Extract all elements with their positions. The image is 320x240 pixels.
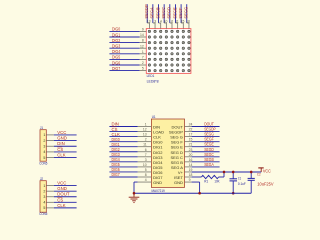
wire net SEGG from U1 bbox=[192, 136, 220, 138]
svg-text:DIG3: DIG3 bbox=[112, 44, 121, 49]
wire net DIG2 to U1 bbox=[109, 151, 137, 153]
svg-text:LED8*8: LED8*8 bbox=[147, 78, 159, 83]
wire net SEGC to LED1 column bbox=[163, 4, 165, 23]
svg-text:CON5: CON5 bbox=[39, 211, 47, 216]
pin 2 J2 bbox=[46, 190, 54, 192]
pin 9 LED1 left bbox=[140, 30, 147, 32]
svg-text:17: 17 bbox=[189, 133, 193, 137]
svg-text:SEGG: SEGG bbox=[184, 7, 189, 19]
junction gnd/ground symbol bbox=[133, 192, 136, 195]
wire net DIG5 to U1 bbox=[109, 166, 137, 168]
pin 12 LED1 left bbox=[140, 47, 147, 49]
wire gnd rail bbox=[134, 192, 251, 194]
svg-text:7: 7 bbox=[142, 56, 144, 60]
pin 3 U1 DIG4 bbox=[138, 161, 152, 163]
wire net DIG4 to U1 bbox=[109, 161, 137, 163]
pin 1 LED1 left bbox=[140, 53, 147, 55]
svg-text:DOUT: DOUT bbox=[57, 192, 70, 197]
svg-text:5: 5 bbox=[145, 168, 147, 172]
pin 5 U1 DIG6 bbox=[138, 171, 152, 173]
svg-text:CON5: CON5 bbox=[39, 160, 47, 165]
junction C2/V+ bbox=[250, 171, 253, 174]
pin 1 J1 bbox=[46, 134, 54, 136]
junction C1/V+ bbox=[232, 171, 235, 174]
svg-text:U1: U1 bbox=[152, 114, 156, 119]
pin 14 U1 SEG A bbox=[185, 166, 192, 168]
svg-text:4: 4 bbox=[145, 178, 147, 182]
pin 1 U1 DIN bbox=[138, 126, 152, 128]
svg-text:1: 1 bbox=[43, 184, 45, 188]
wire net SEGD from U1 bbox=[192, 151, 220, 153]
overline CS bbox=[112, 126, 117, 128]
wire V+ rail to VCC bbox=[192, 171, 262, 173]
wire net DIG3 to U1 bbox=[109, 156, 137, 158]
pin 13 LED1 top bbox=[147, 22, 149, 24]
wire net DIG3 to LED1 row bbox=[109, 47, 139, 49]
wire net DIG1 to U1 bbox=[109, 146, 137, 148]
svg-text:10uF25V: 10uF25V bbox=[257, 181, 273, 186]
pin 18 U1 ISET bbox=[185, 176, 192, 178]
svg-text:5: 5 bbox=[43, 156, 45, 160]
svg-text:GND: GND bbox=[57, 186, 67, 191]
pin 16 LED1 top bbox=[187, 22, 189, 24]
svg-text:SEGB: SEGB bbox=[155, 7, 160, 19]
svg-text:SEGE: SEGE bbox=[172, 7, 177, 19]
svg-text:CLK: CLK bbox=[57, 203, 65, 208]
pin 16 U1 SEG B bbox=[185, 161, 192, 163]
svg-text:SEGA: SEGA bbox=[150, 7, 155, 19]
pin 20 U1 SEG C bbox=[185, 156, 192, 158]
pin 10 LED1 top bbox=[164, 22, 166, 24]
pin 8 U1 DIG7 bbox=[138, 176, 152, 178]
svg-text:12: 12 bbox=[140, 44, 144, 48]
pin 5 J1 bbox=[46, 157, 54, 159]
pin 4 J1 bbox=[46, 151, 54, 153]
wire net DIG1 to LED1 row bbox=[109, 36, 139, 38]
capacitor C2 bbox=[248, 177, 255, 179]
wire net DIN from J1 pin 3 bbox=[54, 145, 77, 147]
svg-text:DIG4: DIG4 bbox=[112, 49, 121, 54]
svg-text:21: 21 bbox=[189, 143, 193, 147]
svg-text:3: 3 bbox=[43, 145, 45, 149]
svg-text:1: 1 bbox=[142, 50, 144, 54]
svg-text:SEGA: SEGA bbox=[204, 162, 214, 167]
wire U1 ISET to R1 bbox=[192, 176, 202, 178]
svg-text:DIG2: DIG2 bbox=[112, 38, 121, 43]
svg-text:10K: 10K bbox=[214, 178, 219, 183]
svg-text:4: 4 bbox=[160, 20, 162, 24]
svg-text:J1: J1 bbox=[40, 126, 43, 130]
svg-text:2: 2 bbox=[43, 139, 45, 143]
svg-text:1: 1 bbox=[43, 133, 45, 137]
overline CS bbox=[57, 146, 62, 148]
pin 3 J1 bbox=[46, 145, 54, 147]
svg-text:SEGDP: SEGDP bbox=[144, 4, 149, 19]
wire V+ to C2 bbox=[250, 172, 252, 178]
pin 4 J2 bbox=[46, 201, 54, 203]
svg-text:GND: GND bbox=[57, 136, 67, 141]
wire net DOUT from U1 bbox=[192, 126, 220, 128]
svg-text:11: 11 bbox=[143, 143, 147, 147]
svg-text:VCC: VCC bbox=[57, 130, 66, 135]
wire net DIG6 to LED1 row bbox=[109, 64, 139, 66]
svg-text:SEGF: SEGF bbox=[178, 7, 183, 19]
svg-text:24: 24 bbox=[189, 123, 193, 127]
wire net CLK to U1 bbox=[109, 136, 137, 138]
wire net SEGDP to LED1 column bbox=[146, 4, 148, 23]
pin 22 U1 SEGDP bbox=[185, 131, 192, 133]
capacitor C1 bbox=[230, 178, 238, 180]
wire net DIG5 to LED1 row bbox=[109, 58, 139, 60]
wire net SEGB to LED1 column bbox=[158, 4, 160, 23]
svg-text:SEGC: SEGC bbox=[161, 7, 166, 19]
wire net CS to U1 bbox=[109, 131, 137, 133]
pin 23 U1 SEG D bbox=[185, 151, 192, 153]
svg-text:VCC: VCC bbox=[263, 168, 271, 173]
pin 17 U1 SEG G bbox=[185, 136, 192, 138]
wire net DIG7 to U1 bbox=[109, 176, 137, 178]
pin 9 U1 GND bbox=[185, 181, 192, 183]
pin 12 U1 LOAD bbox=[138, 131, 152, 133]
wire net DIG7 to LED1 row bbox=[109, 70, 139, 72]
svg-text:22: 22 bbox=[189, 128, 193, 132]
pin 8 LED1 left bbox=[140, 42, 147, 44]
wire net SEGE to LED1 column bbox=[174, 4, 176, 23]
svg-text:3: 3 bbox=[154, 20, 156, 24]
resistor R1 bbox=[201, 175, 218, 178]
svg-text:23: 23 bbox=[189, 148, 193, 152]
wire net SEGB from U1 bbox=[192, 161, 220, 163]
svg-text:15: 15 bbox=[189, 138, 193, 142]
pin 24 U1 DOUT bbox=[185, 126, 192, 128]
svg-text:R1: R1 bbox=[204, 178, 208, 183]
svg-text:10: 10 bbox=[143, 163, 147, 167]
wire net CS from J2 pin 4 bbox=[54, 201, 77, 203]
svg-text:12: 12 bbox=[143, 128, 147, 132]
wire net GND from J2 pin 2 bbox=[54, 190, 77, 192]
svg-text:DIG5: DIG5 bbox=[112, 55, 121, 60]
pin 5 LED1 left bbox=[140, 70, 147, 72]
pin 13 U1 CLK bbox=[138, 136, 152, 138]
svg-text:DIG1: DIG1 bbox=[112, 32, 121, 37]
svg-text:19: 19 bbox=[189, 168, 193, 172]
svg-text:DIG7: DIG7 bbox=[112, 172, 121, 177]
svg-text:VCC: VCC bbox=[57, 181, 66, 186]
svg-text:20: 20 bbox=[189, 153, 193, 157]
pin 15 LED1 top bbox=[181, 22, 183, 24]
wire net SEGD to LED1 column bbox=[169, 4, 171, 23]
wire net DIN to U1 bbox=[109, 126, 137, 128]
svg-text:9: 9 bbox=[142, 28, 144, 32]
pin 7 U1 DIG3 bbox=[138, 156, 152, 158]
svg-text:10: 10 bbox=[164, 20, 168, 24]
wire net DIG6 to U1 bbox=[109, 171, 137, 173]
wire V+ to C1 bbox=[232, 172, 234, 179]
svg-text:SEGD: SEGD bbox=[167, 7, 172, 19]
pin 14 LED1 left bbox=[140, 36, 147, 38]
svg-text:1: 1 bbox=[145, 123, 147, 127]
pin 21 U1 SEG E bbox=[185, 146, 192, 148]
svg-text:CS: CS bbox=[57, 197, 63, 202]
wire net SEGA to LED1 column bbox=[152, 4, 154, 23]
connector J2 CON5 body bbox=[40, 181, 46, 213]
LED matrix LED1 body bbox=[146, 29, 191, 74]
svg-text:GND: GND bbox=[153, 180, 162, 185]
pin 11 LED1 top bbox=[175, 22, 177, 24]
svg-text:16: 16 bbox=[189, 158, 193, 162]
wire R1 to V+ rail bbox=[219, 176, 224, 178]
pin 15 U1 SEG F bbox=[185, 141, 192, 143]
pin 3 J2 bbox=[46, 196, 54, 198]
svg-text:9: 9 bbox=[189, 178, 191, 182]
svg-text:5: 5 bbox=[43, 206, 45, 210]
wire net CLK from J2 pin 5 bbox=[54, 207, 77, 209]
svg-text:14: 14 bbox=[140, 33, 144, 37]
svg-text:16: 16 bbox=[186, 20, 190, 24]
svg-text:DIG0: DIG0 bbox=[112, 27, 121, 32]
pin 4 LED1 top bbox=[159, 22, 161, 24]
svg-text:8: 8 bbox=[142, 39, 144, 43]
pin 7 LED1 left bbox=[140, 58, 147, 60]
wire net GND from J1 pin 2 bbox=[54, 140, 77, 142]
wire net CLK from J1 pin 5 bbox=[54, 157, 77, 159]
svg-text:4: 4 bbox=[43, 201, 45, 205]
wire net VCC from J2 pin 1 bbox=[54, 185, 77, 187]
ground bbox=[133, 193, 135, 197]
pin 11 U1 DIG1 bbox=[138, 146, 152, 148]
wire net SEGDP from U1 bbox=[192, 131, 220, 133]
wire net SEGF to LED1 column bbox=[180, 4, 182, 23]
pin 1 J2 bbox=[46, 185, 54, 187]
wire net DIG0 to LED1 row bbox=[109, 30, 139, 32]
svg-text:CS: CS bbox=[57, 147, 63, 152]
pin 10 U1 DIG5 bbox=[138, 166, 152, 168]
svg-text:14: 14 bbox=[189, 163, 193, 167]
wire net SEGG to LED1 column bbox=[186, 4, 188, 23]
svg-text:2: 2 bbox=[145, 138, 147, 142]
pin 5 J2 bbox=[46, 207, 54, 209]
wire C1 to gnd rail bbox=[232, 181, 234, 193]
svg-text:2: 2 bbox=[43, 189, 45, 193]
wire net SEGA from U1 bbox=[192, 166, 220, 168]
svg-text:5: 5 bbox=[142, 67, 144, 71]
pin 6 U1 DIG2 bbox=[138, 151, 152, 153]
svg-text:DIN: DIN bbox=[57, 141, 64, 146]
connector J1 CON5 body bbox=[40, 130, 46, 162]
wire net DIG0 to U1 bbox=[109, 141, 137, 143]
wire net VCC from J1 pin 1 bbox=[54, 134, 77, 136]
wire net SEGF from U1 bbox=[192, 141, 220, 143]
svg-text:4: 4 bbox=[43, 150, 45, 154]
svg-text:11: 11 bbox=[175, 20, 179, 24]
chip U1 MAX7219 body bbox=[151, 119, 184, 187]
svg-text:2: 2 bbox=[142, 61, 144, 65]
svg-text:18: 18 bbox=[189, 173, 193, 177]
pin 6 LED1 top bbox=[170, 22, 172, 24]
svg-text:GND: GND bbox=[174, 180, 183, 185]
svg-text:CLK: CLK bbox=[57, 153, 65, 158]
svg-text:DIG6: DIG6 bbox=[112, 60, 121, 65]
wire U1 right GND down bbox=[192, 181, 200, 183]
svg-text:8: 8 bbox=[145, 173, 147, 177]
junction R1/V+ bbox=[223, 171, 226, 174]
svg-text:13: 13 bbox=[143, 133, 147, 137]
pin 2 LED1 left bbox=[140, 64, 147, 66]
wire net SEGE from U1 bbox=[192, 146, 220, 148]
svg-text:MAX7219: MAX7219 bbox=[152, 188, 165, 193]
svg-text:0.1uF: 0.1uF bbox=[238, 181, 246, 186]
wire C2 to gnd rail bbox=[250, 181, 252, 194]
pin 2 U1 DIG0 bbox=[138, 141, 152, 143]
wire net DIG4 to LED1 row bbox=[109, 53, 139, 55]
pin 19 U1 V+ bbox=[185, 171, 192, 173]
svg-text:13: 13 bbox=[147, 20, 151, 24]
svg-text:3: 3 bbox=[145, 158, 147, 162]
LED matrix dot grid bbox=[148, 30, 190, 72]
pin 3 LED1 top bbox=[153, 22, 155, 24]
svg-text:6: 6 bbox=[171, 20, 173, 24]
power port VCC bbox=[260, 168, 262, 172]
wire net DOUT from J2 pin 3 bbox=[54, 196, 77, 198]
svg-text:15: 15 bbox=[181, 20, 185, 24]
wire net CS from J1 pin 4 bbox=[54, 151, 77, 153]
pin 2 J1 bbox=[46, 140, 54, 142]
svg-text:6: 6 bbox=[145, 148, 147, 152]
svg-text:C2: C2 bbox=[257, 171, 261, 176]
wire net SEGC from U1 bbox=[192, 156, 220, 158]
junction C1/gnd bbox=[232, 192, 235, 195]
junction right GND/rail bbox=[198, 192, 201, 195]
wire U1 left GND down bbox=[134, 181, 138, 183]
svg-text:DIG7: DIG7 bbox=[112, 66, 121, 71]
svg-text:3: 3 bbox=[43, 195, 45, 199]
svg-text:J2: J2 bbox=[40, 177, 43, 181]
overline CS bbox=[57, 196, 62, 198]
wire net DIG2 to LED1 row bbox=[109, 42, 139, 44]
pin 4 U1 GND bbox=[138, 181, 152, 183]
svg-text:7: 7 bbox=[145, 153, 147, 157]
